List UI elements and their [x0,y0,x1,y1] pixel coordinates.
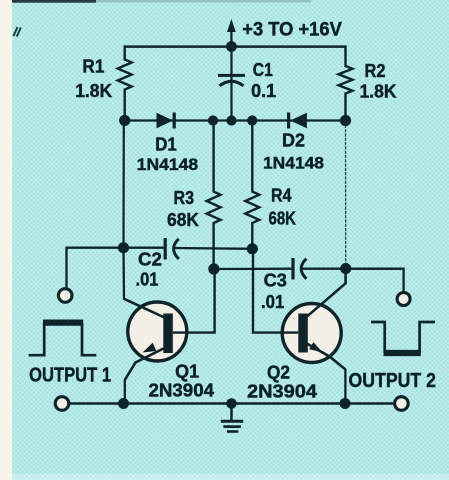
node C2 right junction [247,243,258,254]
wire output1 top stub [67,248,124,289]
svg-text:1.8K: 1.8K [360,82,397,102]
ground [221,404,243,432]
terminal output2 bottom [395,397,409,411]
capacitor C2 [124,238,253,260]
svg-text:.01: .01 [136,270,159,290]
wire bottom rail [69,402,395,405]
svg-text:2N3904: 2N3904 [149,381,215,401]
node ground junction [226,398,237,409]
svg-text:C3: C3 [264,270,287,290]
svg-text:1N4148: 1N4148 [137,155,199,174]
terminal output1 bottom [55,397,69,411]
node bottom left junction [118,398,129,409]
resistor R4 [245,121,259,249]
terminal output1 top [58,289,72,303]
svg-text:68K: 68K [269,209,297,229]
ink speck [14,27,21,37]
svg-text:R2: R2 [365,61,386,81]
svg-text:Q2: Q2 [267,363,290,383]
svg-text:2N3904: 2N3904 [247,382,317,402]
svg-text:R3: R3 [174,188,195,208]
svg-text:+3 TO +16V: +3 TO +16V [242,20,342,41]
node supply junction [226,41,237,52]
wire output2 top stub [346,269,404,292]
wire right collector drop (faint) [345,121,347,269]
svg-text:D2: D2 [282,131,305,151]
svg-text:D1: D1 [155,135,177,155]
resistor R3 [207,121,221,270]
node C3 right junction [340,263,351,274]
wire Q1 emitter lead [124,380,126,404]
capacitor C3 [214,258,404,280]
node bottom right junction [340,398,351,409]
node C2 left junction [118,242,129,253]
waveform output2 pulse [371,322,435,353]
node C3 left junction [208,263,219,274]
transistor Q2 2N3904 [253,249,346,370]
wire Q2 emitter lead [344,369,346,404]
svg-text:Q1: Q1 [175,362,199,382]
supply arrow +3 TO +16V [227,19,236,47]
svg-text:R1: R1 [82,57,104,77]
svg-text:C1: C1 [253,60,273,80]
resistor R1 [118,45,132,120]
wire left collector drop [122,121,125,248]
svg-text:R4: R4 [271,186,292,206]
capacitor C1 [218,47,245,121]
top edge smudge [12,0,96,3]
svg-text:C2: C2 [138,250,162,270]
svg-text:1.8K: 1.8K [75,81,112,101]
svg-text:0.1: 0.1 [251,81,276,101]
left paper margin [0,0,12,480]
wire top supply rail [125,45,346,48]
transistor Q1 2N3904 [124,269,215,380]
diode D2 1N4148 [287,113,307,129]
terminal output2 top [397,293,410,306]
waveform output1 pulse [29,323,97,356]
svg-text:OUTPUT 2: OUTPUT 2 [349,370,437,392]
svg-text:.01: .01 [261,292,284,312]
svg-text:1N4148: 1N4148 [263,154,324,173]
wire diode row [125,119,346,121]
svg-text:68K: 68K [167,210,199,230]
diode D1 1N4148 [157,113,176,129]
node diode row junctions [119,115,351,126]
wire Q1 collector lead [122,248,125,300]
resistor R2 [339,45,353,120]
bottom edge light strip [0,474,449,480]
svg-text:OUTPUT 1: OUTPUT 1 [29,365,111,387]
